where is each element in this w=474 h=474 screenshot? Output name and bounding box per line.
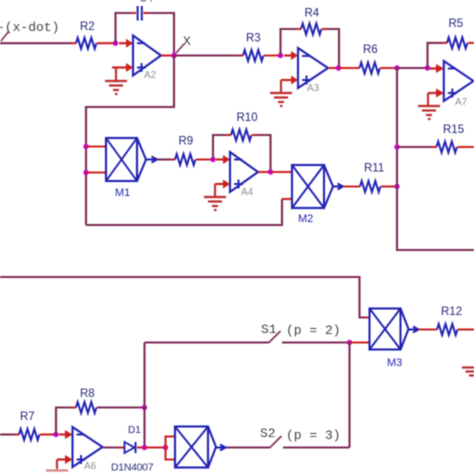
pin arrow A7 inverting input [430,64,444,73]
wire A3 plus down to ground [280,80,282,92]
node junction A7 inverting input [425,65,430,70]
resistor R8 [76,388,96,413]
pin arrow A6 non-inverting input [57,455,73,464]
svg-text:M3: M3 [387,357,402,369]
wire junction down to S2 [348,343,350,448]
wire R5 to right edge [468,42,474,44]
pin arrow A4 non-inverting input [215,180,230,189]
wire bottom-left net to R7 [0,433,14,435]
resistor R9 [175,136,195,166]
capacitor C4 (label cropped at top) [138,0,153,21]
wire bus to R15 [397,146,431,148]
multiplier M3 [370,309,419,370]
resistor R4 [301,8,321,35]
svg-text:R15: R15 [443,124,464,136]
svg-text:C4: C4 [139,0,153,5]
resistor R11 [360,163,384,193]
wire R11 to bus [381,185,397,187]
wire M1 output to R9 [157,158,170,160]
wire M4 input bracket [166,437,176,460]
wire A3 feedback loop down to output [327,29,339,68]
svg-text:S2: S2 [260,426,276,441]
svg-text:R5: R5 [449,18,464,30]
node -(x-dot) input label [0,20,59,41]
op-amp A2 [133,36,161,82]
wire A3 feedback loop up [281,29,297,56]
wire bus top to A7 input junction [397,67,428,69]
wire X to R3 [174,54,238,56]
resistor R2 [76,21,96,49]
svg-text:-(x-dot): -(x-dot) [0,20,59,35]
pin arrow A2 non-inverting input [112,63,133,72]
wire A4 output red stub [258,171,271,173]
svg-text:R3: R3 [246,33,261,45]
resistor R7 [19,411,39,440]
wire A6 plus down to ground [56,460,58,470]
wire M1 input 1 stub [86,145,106,147]
svg-text:R7: R7 [20,411,35,423]
wire red stub left of R2 [71,42,76,44]
ground A2 [105,81,127,94]
pin arrow A2 inverting input [119,39,133,48]
op-amp A3 [298,48,328,94]
wire A6 output to D1 [103,446,120,448]
wire A7 plus down to ground [427,93,429,105]
wire junction to M3 bottom input [350,341,370,343]
ground partial right edge [462,368,474,376]
svg-text:M2: M2 [298,213,313,225]
svg-text:R8: R8 [80,388,95,400]
svg-text:R11: R11 [364,163,384,175]
wire A3 output red stub [328,67,339,69]
wire red stub left of C [131,12,136,14]
wire vertical bus and bottom run to right edge [397,68,474,250]
wire A3 output to R6 [339,67,360,69]
diode D1 D1N4007 [111,425,154,474]
pin arrow A3 inverting input [284,51,298,60]
wire R8 to vertical riser [97,406,145,408]
wire A4 feedback loop down to output [257,135,271,172]
ground A6 partial bottom [46,469,68,471]
resistor R3 [243,33,263,62]
svg-text:A2: A2 [144,70,157,81]
wire M1 input 2 stub [86,171,106,173]
switch S2 (p = 3) [224,426,350,448]
node junction A2 inverting input [113,41,118,46]
wire to M4 input bracket [145,446,166,448]
wire red stub A2 output [161,54,174,56]
svg-text:S1: S1 [261,322,277,337]
wire feedback loop up from junction [116,13,132,43]
svg-text:A4: A4 [241,187,254,198]
svg-text:D1N4007: D1N4007 [111,462,154,474]
op-amp A4 [230,152,258,198]
wire A2 plus input down to ground [115,68,117,81]
wire R7 to A6 junction [40,433,56,435]
wire A4 feedback loop up to R10 [213,135,226,160]
wire M2 output to R11 [343,185,360,187]
svg-text:R2: R2 [80,21,95,33]
svg-text:(p = 3): (p = 3) [286,428,341,443]
node junction A3 output [336,65,341,70]
multiplier M4 [175,427,226,468]
wire red stub right of C [143,12,148,14]
svg-text:R9: R9 [179,136,194,148]
node X junction at A2 output [171,53,177,59]
wire R6 to bus junction [381,67,398,69]
node junction A3 inverting input [278,53,283,58]
wire A4 output to M2 input 1 [271,171,293,173]
wire D1 cathode to junction [137,446,145,448]
multiplier M1 [106,138,157,199]
node junction A6 inverting input [53,432,58,437]
node junction R11 bus [394,184,399,189]
wire input net to R2 [0,42,71,44]
resistor R10 [231,112,258,141]
wire M3 output to R12 [419,328,438,330]
ground A3 [270,93,292,106]
resistor R15 [437,124,465,153]
svg-text:X: X [183,34,191,49]
wire R2 to A2 input junction [97,42,116,44]
node X label [176,34,191,53]
wire R3 to A3 junction [264,54,281,56]
pin arrow A7 non-inverting input [428,89,444,98]
wire A4 plus down to ground [214,184,216,196]
wire A7 feedback loop up to R5 [428,43,443,68]
node junction M1 input 2 [83,170,88,175]
node junction A4 output [268,169,273,174]
node junction R8 riser [142,405,147,410]
node junction D1 output [142,445,147,450]
switch S1 (p = 2) [145,322,350,343]
pin arrow A6 inverting input [59,430,73,439]
wire mid horizontal net to M3 top input [0,277,365,318]
node junction bus top [394,65,399,70]
pin arrow A3 non-inverting input [281,76,298,85]
resistor R6 [360,44,380,74]
wire red stub M2 input 2 [282,198,292,200]
wire R15 to right edge [458,146,474,148]
svg-text:A6: A6 [84,461,97,472]
svg-text:M1: M1 [115,187,130,199]
node junction R15 bus [394,144,399,149]
wire X node down and left to M1 rail [86,56,174,226]
svg-text:R4: R4 [305,8,320,20]
node junction M1 input 1 [83,144,88,149]
wire R9 to A4 junction [196,158,213,160]
wire bottom rail to M2 riser [86,199,282,225]
svg-text:(p = 2): (p = 2) [286,323,341,338]
svg-text:A7: A7 [455,97,468,108]
node junction S1/S2/M3 [347,340,352,345]
wire R12 to right edge [458,328,474,330]
op-amp A7 [444,61,474,108]
svg-text:R10: R10 [237,112,258,124]
resistor R12 [437,306,462,335]
op-amp A6 [73,427,103,472]
wire riser from S1 down to D1 junction [143,343,145,448]
svg-text:D1: D1 [128,425,141,436]
node junction A4 inverting input [210,157,215,162]
svg-text:A3: A3 [307,83,320,94]
wire feedback loop down to A2 output [149,13,175,56]
resistor R5 [447,18,467,48]
pin arrow A4 inverting input [216,155,230,164]
multiplier M2 [292,165,343,225]
ground A7 [418,106,440,119]
svg-text:R6: R6 [363,44,378,56]
wire A6 feedback loop up to R8 [56,408,71,435]
node junction M4 inputs [163,445,168,450]
svg-text:R12: R12 [441,306,462,318]
ground A4 [204,197,226,210]
